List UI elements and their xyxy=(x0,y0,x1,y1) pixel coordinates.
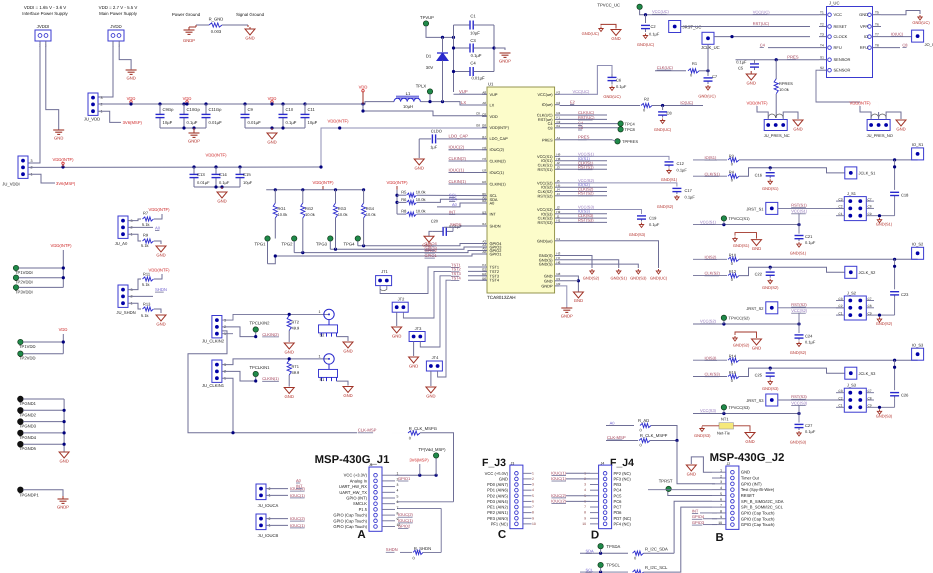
testpoint TP3VDDI xyxy=(13,285,18,290)
svg-text:G8: G8 xyxy=(482,124,486,128)
svg-text:GND(S1): GND(S1) xyxy=(610,276,627,281)
svg-text:TPC8: TPC8 xyxy=(625,127,636,132)
svg-text:VDD = 2.7 V - 5.5 V: VDD = 2.7 V - 5.5 V xyxy=(99,5,138,10)
svg-text:A0: A0 xyxy=(155,226,161,231)
svg-text:CLK(S3): CLK(S3) xyxy=(705,372,721,377)
svg-text:IOUC(2): IOUC(2) xyxy=(490,147,505,152)
wire GNDP pin drop xyxy=(560,286,567,308)
jumper JU_PRES_NC xyxy=(764,120,787,131)
testpoint TPSCL xyxy=(598,562,603,567)
pin J_UC RFU right xyxy=(873,47,882,49)
pin U1 SHDN xyxy=(482,225,487,227)
wire TPVDD rail xyxy=(62,334,64,354)
svg-text:0.1µF: 0.1µF xyxy=(649,32,660,37)
svg-text:TPGNDP1: TPGNDP1 xyxy=(19,493,39,498)
testpoint TP2VDD xyxy=(18,351,23,356)
svg-text:IOUC(2): IOUC(2) xyxy=(449,145,465,150)
ground GND TPGND rail xyxy=(59,452,69,458)
svg-text:GPIO1: GPIO1 xyxy=(398,476,411,481)
svg-text:49.9: 49.9 xyxy=(292,326,301,331)
svg-text:VDD(INTF): VDD(INTF) xyxy=(149,268,171,273)
svg-text:C14: C14 xyxy=(219,172,227,177)
svg-text:VDDI = 1.65 V - 3.6 V: VDDI = 1.65 V - 3.6 V xyxy=(24,5,66,10)
svg-text:RST(S2): RST(S2) xyxy=(791,302,807,307)
pin U1 GPIO2 xyxy=(482,250,487,252)
svg-text:T1: T1 xyxy=(820,11,824,15)
svg-text:R_I2C_SCL: R_I2C_SCL xyxy=(645,565,668,570)
svg-text:TPVCC(S3): TPVCC(S3) xyxy=(729,405,751,410)
testpoint TPVCC(S1) xyxy=(721,216,726,221)
svg-text:C20: C20 xyxy=(431,218,439,223)
wire VDD bus step to L1 xyxy=(305,102,394,104)
svg-text:VDD: VDD xyxy=(490,114,498,119)
svg-text:0.01µF: 0.01µF xyxy=(248,120,262,125)
svg-text:C7: C7 xyxy=(712,74,718,79)
svg-text:RST(S2): RST(S2) xyxy=(578,191,594,196)
svg-text:3V6(MSP): 3V6(MSP) xyxy=(56,181,76,186)
pin U1 VDD(INTF) xyxy=(482,126,487,128)
wire gnd rail caps 2 xyxy=(245,127,305,129)
pin U1 CLK(UC) right xyxy=(555,114,560,116)
svg-text:RST(S3): RST(S3) xyxy=(791,394,807,399)
svg-text:C3: C3 xyxy=(838,197,842,201)
connector JU_CLKIN1 xyxy=(212,360,222,382)
testpoint TPGND4 xyxy=(18,430,23,435)
svg-text:S1: S1 xyxy=(320,377,326,382)
svg-text:IOUC(1): IOUC(1) xyxy=(290,493,306,498)
svg-text:JU_IOUCB: JU_IOUCB xyxy=(258,533,279,538)
svg-text:INT: INT xyxy=(449,209,456,214)
svg-text:TPG3: TPG3 xyxy=(316,242,328,247)
svg-text:VCC(UC): VCC(UC) xyxy=(573,89,591,94)
ground GND below JVDD xyxy=(126,69,137,71)
ground GND(S2) under C xyxy=(768,279,772,284)
svg-text:GPIO1: GPIO1 xyxy=(490,252,502,257)
svg-text:Analog In: Analog In xyxy=(350,478,368,483)
svg-text:INT: INT xyxy=(490,212,497,217)
svg-text:GND: GND xyxy=(859,12,868,17)
wire JVDD pin1 down to JU_VDD xyxy=(98,41,113,97)
svg-text:GND: GND xyxy=(896,127,905,132)
ground GND(S3) under C xyxy=(768,380,772,385)
ground GNDP TPGNDP1 xyxy=(62,496,64,499)
svg-text:SMCLK: SMCLK xyxy=(353,501,367,506)
svg-text:T4: T4 xyxy=(820,43,824,47)
wire J2 pin6 SDA drop xyxy=(674,501,712,553)
capacitor C15 xyxy=(238,165,241,168)
wire right column C23 xyxy=(894,259,896,289)
svg-text:GNDP: GNDP xyxy=(183,38,195,43)
svg-text:VDD(INTF): VDD(INTF) xyxy=(850,101,872,106)
pin U1 CLK(S1) right xyxy=(555,164,560,166)
svg-text:30V: 30V xyxy=(426,65,434,70)
connector JCLK_UC xyxy=(702,32,714,44)
svg-text:IOUC(1): IOUC(1) xyxy=(290,523,306,528)
svg-text:VDD: VDD xyxy=(59,327,68,332)
svg-text:LDO_CAP: LDO_CAP xyxy=(490,136,509,141)
svg-text:F_J4: F_J4 xyxy=(610,457,634,469)
svg-text:GND(S2): GND(S2) xyxy=(790,350,807,355)
connector JO_UC xyxy=(912,30,924,42)
pin U1 GND(ue) right xyxy=(555,240,560,242)
svg-text:T7: T7 xyxy=(875,32,879,36)
svg-text:VDD(INTF): VDD(INTF) xyxy=(149,207,171,212)
wire JT2 right pin xyxy=(403,271,451,318)
svg-text:GND(UC): GND(UC) xyxy=(698,94,716,99)
wire R5 rail xyxy=(396,190,398,214)
svg-text:JCLK_S2: JCLK_S2 xyxy=(859,270,877,275)
svg-text:GPIO (INT): GPIO (INT) xyxy=(346,496,367,501)
svg-text:GND(ue): GND(ue) xyxy=(537,238,553,243)
svg-text:0.1µF: 0.1µF xyxy=(649,222,660,227)
svg-text:T2: T2 xyxy=(820,22,824,26)
svg-text:PE3 (AIN0): PE3 (AIN0) xyxy=(487,516,508,521)
pin U1 A0 xyxy=(482,202,487,204)
pin U1 VUP xyxy=(482,93,487,95)
svg-text:R2: R2 xyxy=(644,96,650,101)
wire JVDD pin2 to GND xyxy=(119,41,131,69)
svg-text:Test (Spy-Bi-Wire): Test (Spy-Bi-Wire) xyxy=(741,487,775,492)
svg-text:INT: INT xyxy=(692,508,699,513)
svg-text:IO: IO xyxy=(864,34,868,39)
svg-text:C3: C3 xyxy=(838,297,842,301)
svg-text:PC4: PC4 xyxy=(614,488,623,493)
svg-text:R1: R1 xyxy=(692,61,698,66)
wire SENSOR S2 drop xyxy=(816,70,879,119)
svg-text:GND: GND xyxy=(217,199,226,204)
svg-text:6: 6 xyxy=(720,498,722,502)
svg-text:C7: C7 xyxy=(868,197,872,201)
svg-text:R6: R6 xyxy=(401,197,407,202)
svg-text:LX: LX xyxy=(461,100,466,105)
svg-text:VCC: VCC xyxy=(834,12,843,17)
svg-text:0.01µF: 0.01µF xyxy=(471,76,485,81)
svg-text:1µF: 1µF xyxy=(430,145,438,150)
wire VDDI bus end xyxy=(319,165,322,168)
svg-text:R3: R3 xyxy=(729,153,735,158)
svg-text:JT4: JT4 xyxy=(432,355,439,360)
pin U1 GND(S) right xyxy=(555,255,560,257)
svg-text:GND: GND xyxy=(343,349,352,354)
testpoint TP1VDDI xyxy=(13,265,18,270)
svg-text:GND(S2): GND(S2) xyxy=(733,342,750,347)
svg-text:GNDP: GNDP xyxy=(188,139,200,144)
svg-text:TPGND4: TPGND4 xyxy=(19,435,37,440)
capacitor C10Gp xyxy=(182,102,185,105)
label SHDN net xyxy=(128,295,153,297)
svg-text:J_S2: J_S2 xyxy=(847,291,857,296)
svg-text:Power Ground: Power Ground xyxy=(172,12,201,17)
wire VDDI bus xyxy=(28,166,321,168)
svg-text:C7: C7 xyxy=(868,297,872,301)
svg-text:GND: GND xyxy=(285,350,294,355)
svg-text:GPIO (INT): GPIO (INT) xyxy=(741,481,762,486)
svg-text:GND: GND xyxy=(156,253,165,258)
svg-text:A6: A6 xyxy=(482,250,486,254)
svg-text:S1: S1 xyxy=(820,56,824,60)
svg-text:3: 3 xyxy=(31,159,33,163)
pin U1 GPIO1 xyxy=(482,253,487,255)
svg-text:GNDP: GNDP xyxy=(541,283,553,288)
wire cap-left rail xyxy=(453,25,455,92)
capacitor C13 xyxy=(192,165,195,168)
svg-text:TPGND1: TPGND1 xyxy=(19,401,37,406)
svg-text:UART_HW_TX: UART_HW_TX xyxy=(339,490,367,495)
svg-text:10.0k: 10.0k xyxy=(366,212,376,217)
svg-text:VCC(S3): VCC(S3) xyxy=(791,400,808,405)
ground GND(S3) under C vcc xyxy=(797,431,801,436)
svg-text:7: 7 xyxy=(720,504,722,508)
svg-text:RFU: RFU xyxy=(834,45,842,50)
svg-text:VDD: VDD xyxy=(359,85,368,90)
svg-text:5: 5 xyxy=(720,492,722,496)
pin U1 CLK(S3) right xyxy=(555,217,560,219)
svg-text:TPSCL: TPSCL xyxy=(606,563,620,568)
ground GND(UC) under C6 xyxy=(610,86,614,91)
wire J_S2 vcc row xyxy=(799,315,836,324)
svg-text:C1: C1 xyxy=(838,311,842,315)
ground GNDP right of caps xyxy=(494,48,505,50)
svg-text:TPG2: TPG2 xyxy=(282,242,294,247)
pin U1 RST(S3) right xyxy=(555,221,560,223)
svg-text:GNDP: GNDP xyxy=(561,314,573,319)
ground GND S1 xyxy=(337,381,349,385)
capacitor C26 right xyxy=(894,396,896,398)
svg-text:A0: A0 xyxy=(296,478,302,483)
svg-text:C9: C9 xyxy=(868,212,872,216)
svg-text:IOUC(1): IOUC(1) xyxy=(449,168,465,173)
pin J_UC CLOCK xyxy=(819,36,827,38)
svg-text:T5: T5 xyxy=(875,11,879,15)
svg-text:1: 1 xyxy=(319,310,321,314)
svg-text:JU_PRES_NC: JU_PRES_NC xyxy=(764,133,790,138)
svg-text:JU_VDD: JU_VDD xyxy=(84,117,100,122)
wire JT1 to TST1 xyxy=(380,267,451,294)
svg-text:IOUC(1): IOUC(1) xyxy=(551,476,567,481)
ground GND under CLDO xyxy=(418,139,420,158)
svg-text:JU_A0: JU_A0 xyxy=(115,241,128,246)
svg-text:PD3 (AIN4): PD3 (AIN4) xyxy=(487,499,509,504)
svg-text:JRST_S3: JRST_S3 xyxy=(746,398,764,403)
pin U1 GPIO4 xyxy=(482,243,487,245)
svg-text:VDD(INTF): VDD(INTF) xyxy=(387,180,409,185)
svg-text:Timer Out: Timer Out xyxy=(741,476,760,481)
svg-text:CLK-MSP: CLK-MSP xyxy=(607,435,626,440)
pin U1 GNDP right xyxy=(555,285,560,287)
svg-text:GND(UC): GND(UC) xyxy=(582,31,600,36)
connector JU_VDDI 3-pin xyxy=(18,156,28,178)
wire JT3 right pin xyxy=(420,276,451,347)
svg-text:JO_UC: JO_UC xyxy=(925,42,933,47)
wire GPIO3 net xyxy=(330,247,487,249)
capacitor C6 xyxy=(611,74,613,77)
svg-text:0.003: 0.003 xyxy=(211,29,222,34)
testpoint TPGND5 xyxy=(18,442,23,447)
svg-text:IO_S3: IO_S3 xyxy=(912,342,924,347)
jumper JU_PRES_NO xyxy=(867,120,890,131)
svg-text:CLK(S1): CLK(S1) xyxy=(705,171,721,176)
svg-text:GND(S3): GND(S3) xyxy=(630,276,647,281)
svg-text:C: C xyxy=(498,529,506,541)
capacitor C27 vcc xyxy=(798,414,800,423)
svg-text:10.0k: 10.0k xyxy=(305,212,315,217)
svg-text:TP1VDD: TP1VDD xyxy=(19,344,36,349)
svg-text:0.1µF: 0.1µF xyxy=(616,84,627,89)
pin U1 IO(S2) right xyxy=(555,186,560,188)
svg-text:CLKIN(1): CLKIN(1) xyxy=(449,179,467,184)
svg-text:10.0k: 10.0k xyxy=(278,212,288,217)
svg-text:C10: C10 xyxy=(286,107,294,112)
wire JT4 right pin xyxy=(438,280,451,377)
wire JU_VDD pin1 3V6(MSP) xyxy=(98,111,121,122)
ground GND right of PRES_NO xyxy=(886,112,901,120)
svg-text:SHDN: SHDN xyxy=(490,224,501,229)
ground GND R9 xyxy=(156,246,166,252)
svg-text:C9: C9 xyxy=(248,107,254,112)
wire J_S3 vcc row xyxy=(799,407,836,413)
svg-text:10: 10 xyxy=(582,522,586,526)
svg-text:10µF: 10µF xyxy=(243,180,253,185)
svg-text:CLKIN(2): CLKIN(2) xyxy=(490,159,507,164)
wire JVDDI pin1 down xyxy=(28,41,40,163)
wire cap-right rail xyxy=(493,25,495,72)
svg-text:NT1: NT1 xyxy=(721,417,729,422)
wire right column C26 xyxy=(894,360,896,390)
wire cap rail C13-15 xyxy=(194,186,240,188)
pin U1 C4 right xyxy=(555,123,560,125)
svg-text:TPVCC(S2): TPVCC(S2) xyxy=(729,316,751,321)
svg-text:VCC(UC): VCC(UC) xyxy=(652,9,670,14)
svg-text:VDD(INTF): VDD(INTF) xyxy=(51,243,73,248)
svg-text:SHDN: SHDN xyxy=(155,287,167,292)
svg-text:IO_S2: IO_S2 xyxy=(912,242,924,247)
pin J_UC GND right xyxy=(873,14,882,16)
svg-text:TPGND5: TPGND5 xyxy=(19,446,37,451)
svg-text:C24: C24 xyxy=(805,334,813,339)
svg-text:S2: S2 xyxy=(820,66,824,70)
svg-text:D6: D6 xyxy=(482,180,486,184)
svg-text:CLKIN(2): CLKIN(2) xyxy=(449,156,467,161)
svg-text:GND(S2): GND(S2) xyxy=(657,204,674,209)
svg-text:GND(UC): GND(UC) xyxy=(603,94,621,99)
svg-text:TPRST: TPRST xyxy=(659,479,673,484)
svg-text:C18: C18 xyxy=(901,192,909,197)
svg-text:RST(S2): RST(S2) xyxy=(537,193,553,198)
svg-text:RESET: RESET xyxy=(834,24,848,29)
connector JCLK_S2 xyxy=(845,266,857,278)
svg-text:VDD(INTF): VDD(INTF) xyxy=(313,180,335,185)
svg-text:IOUC(1): IOUC(1) xyxy=(551,470,567,475)
svg-text:10µH: 10µH xyxy=(403,104,413,109)
svg-text:0.01µF: 0.01µF xyxy=(209,120,223,125)
svg-text:TST4: TST4 xyxy=(451,276,462,281)
svg-text:C27: C27 xyxy=(805,423,813,428)
svg-text:GND(S1): GND(S1) xyxy=(790,251,807,256)
ground GND(S2) under C vcc xyxy=(797,342,801,347)
svg-text:RST(UC): RST(UC) xyxy=(753,21,770,26)
pin U1 TST3 xyxy=(482,275,487,277)
pin U1 VCC(S1) right xyxy=(555,155,560,157)
resistor RT1 49.9 xyxy=(287,360,291,375)
svg-text:RESET: RESET xyxy=(741,493,755,498)
svg-text:SENSOR: SENSOR xyxy=(834,57,851,62)
capacitor C25 clk xyxy=(769,368,771,371)
svg-text:C8: C8 xyxy=(667,111,673,116)
svg-text:A0: A0 xyxy=(452,202,458,207)
svg-text:10.0k: 10.0k xyxy=(416,197,426,202)
svg-text:RST(S3): RST(S3) xyxy=(537,220,553,225)
svg-text:3: 3 xyxy=(101,96,103,100)
svg-text:IOUC(2): IOUC(2) xyxy=(551,498,567,503)
testpoint TPSDA xyxy=(598,544,603,549)
svg-text:8: 8 xyxy=(720,509,722,513)
svg-text:J2: J2 xyxy=(727,462,731,466)
svg-text:PF3 (NC): PF3 (NC) xyxy=(614,476,632,481)
ground GND under C14 xyxy=(221,187,223,189)
svg-text:VCC (+5.0V): VCC (+5.0V) xyxy=(485,471,509,476)
svg-text:GND: GND xyxy=(574,298,583,303)
svg-text:GND: GND xyxy=(267,140,276,145)
ground GND right of PRES_NC xyxy=(783,112,798,120)
svg-text:JRST_UC: JRST_UC xyxy=(683,25,702,30)
svg-text:VUP: VUP xyxy=(459,89,468,94)
svg-text:GND(S3): GND(S3) xyxy=(629,232,646,237)
svg-text:TPVCC(S1): TPVCC(S1) xyxy=(729,216,751,221)
ground GND(S2) under header xyxy=(879,314,881,316)
svg-text:VCC(S2): VCC(S2) xyxy=(700,319,717,324)
svg-text:PE1 (AIN2): PE1 (AIN2) xyxy=(487,505,508,510)
svg-text:0.1µF: 0.1µF xyxy=(805,240,816,245)
svg-text:10.0k: 10.0k xyxy=(416,209,426,214)
svg-text:5.1k: 5.1k xyxy=(141,243,149,248)
svg-text:RT1: RT1 xyxy=(292,364,300,369)
svg-text:VCC (+3.3V): VCC (+3.3V) xyxy=(344,473,368,478)
svg-text:3: 3 xyxy=(584,483,586,487)
svg-text:C17: C17 xyxy=(685,188,693,193)
resistor RG1 10.0k xyxy=(274,190,276,203)
pin U1 IOUC(1) xyxy=(482,172,487,174)
capacitor C11Gp xyxy=(204,102,207,105)
pin U1 CLKIN(2) xyxy=(482,160,487,162)
svg-text:D: D xyxy=(591,530,599,542)
svg-text:CLK(S2): CLK(S2) xyxy=(705,271,721,276)
svg-text:C13: C13 xyxy=(197,172,205,177)
svg-text:B: B xyxy=(716,532,724,544)
svg-text:GND(UC): GND(UC) xyxy=(650,276,668,281)
svg-text:3: 3 xyxy=(397,483,399,487)
svg-text:GPIO (Cap Touch): GPIO (Cap Touch) xyxy=(741,516,775,521)
svg-text:PRES: PRES xyxy=(787,54,799,59)
svg-text:C8: C8 xyxy=(548,125,553,130)
testpoint TP1VDD xyxy=(18,339,23,344)
svg-text:PC6: PC6 xyxy=(614,499,623,504)
svg-text:GND(S1): GND(S1) xyxy=(661,177,678,182)
wire GPIO1 net xyxy=(268,254,488,264)
svg-text:GND: GND xyxy=(752,346,761,351)
pin J_UC SENSOR xyxy=(819,69,827,71)
svg-text:C9: C9 xyxy=(868,311,872,315)
svg-text:PRES: PRES xyxy=(578,135,590,140)
svg-text:RG1: RG1 xyxy=(278,206,287,211)
connector JCLK_S3 xyxy=(845,367,857,379)
svg-text:10µF: 10µF xyxy=(308,120,318,125)
ground GND(S1) under C vcc xyxy=(797,242,801,247)
svg-text:J_UC: J_UC xyxy=(829,1,839,6)
svg-text:JU_CLKIN1: JU_CLKIN1 xyxy=(202,383,225,388)
svg-text:TPG4: TPG4 xyxy=(344,242,356,247)
svg-text:RST(S1): RST(S1) xyxy=(537,167,553,172)
wire GPIO4 net xyxy=(358,244,487,246)
